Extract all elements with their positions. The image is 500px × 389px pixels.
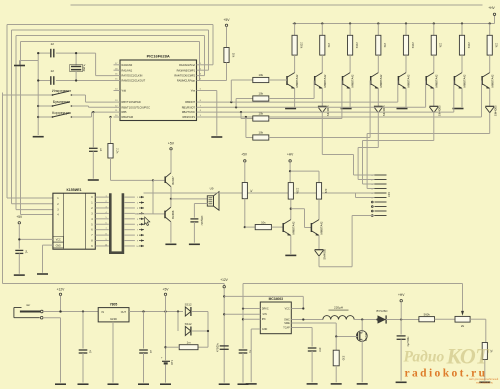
svg-text:560k: 560k — [424, 312, 431, 316]
svg-text:RA0/AN0: RA0/AN0 — [122, 63, 133, 67]
svg-text:RA3/AN3/CMP1: RA3/AN3/CMP1 — [177, 68, 196, 72]
svg-text:22k: 22k — [324, 189, 328, 194]
svg-text:PIC16F628A: PIC16F628A — [147, 54, 170, 59]
svg-text:GND: GND — [262, 328, 268, 331]
svg-text:SM4005: SM4005 — [382, 105, 386, 116]
svg-text:+5V: +5V — [16, 215, 23, 219]
svg-text:330: 330 — [341, 356, 345, 361]
svg-text:DRVC: DRVC — [262, 308, 269, 311]
svg-text:10k: 10k — [231, 53, 235, 58]
svg-text:MMBTA42: MMBTA42 — [291, 221, 295, 234]
svg-text:GND: GND — [56, 245, 61, 247]
svg-text:www.radiokot.ru: www.radiokot.ru — [476, 382, 494, 385]
svg-text:RA1/AN1: RA1/AN1 — [122, 68, 133, 72]
svg-text:VCC: VCC — [56, 240, 61, 242]
svg-text:10k: 10k — [259, 131, 264, 135]
svg-text:22: 22 — [51, 69, 55, 73]
svg-text:+12V: +12V — [57, 288, 66, 292]
svg-text:+5V: +5V — [223, 18, 230, 22]
svg-text:220k: 220k — [296, 188, 300, 195]
svg-text:GND: GND — [110, 317, 118, 321]
svg-text:220k: 220k — [467, 42, 471, 49]
svg-text:10k: 10k — [259, 92, 264, 96]
svg-text:SS12: SS12 — [185, 322, 192, 326]
svg-text:IPK: IPK — [262, 318, 266, 321]
svg-text:MMBTA42: MMBTA42 — [320, 221, 324, 234]
svg-text:SWE: SWE — [284, 322, 290, 325]
svg-text:4МГц: 4МГц — [82, 64, 86, 71]
svg-text:SS12: SS12 — [185, 302, 192, 306]
svg-text:XP2: XP2 — [387, 191, 391, 196]
svg-text:Бумление: Бумление — [53, 100, 71, 104]
svg-text:сайт для радиолюбителей: сайт для радиолюбителей — [469, 378, 499, 381]
svg-text:Коррекция: Коррекция — [52, 111, 71, 115]
svg-text:470: 470 — [318, 347, 322, 352]
svg-text:RB3/CCP1: RB3/CCP1 — [183, 115, 196, 119]
svg-text:БТ1: БТ1 — [170, 359, 174, 364]
svg-text:2k: 2k — [461, 324, 465, 328]
svg-text:BYV26C: BYV26C — [376, 309, 387, 313]
svg-text:4µ7/400v: 4µ7/400v — [407, 336, 410, 347]
svg-text:10k: 10k — [259, 73, 264, 77]
svg-text:RA6/OSC2/CLKOUT: RA6/OSC2/CLKOUT — [122, 79, 146, 83]
svg-text:220k: 220k — [411, 42, 415, 49]
svg-text:RA7/OSC1/CLKIN: RA7/OSC1/CLKIN — [122, 74, 143, 78]
svg-text:470/25v: 470/25v — [216, 342, 219, 352]
svg-text:22: 22 — [51, 42, 55, 46]
svg-text:BC847: BC847 — [171, 176, 175, 185]
svg-text:+HV: +HV — [398, 293, 405, 297]
svg-text:Vss: Vss — [191, 89, 196, 93]
svg-text:220k: 220k — [355, 42, 359, 49]
svg-text:КОТ: КОТ — [446, 344, 491, 369]
svg-text:OUT: OUT — [121, 311, 127, 314]
svg-text:10k: 10k — [259, 112, 264, 116]
svg-text:7805: 7805 — [110, 303, 118, 307]
svg-text:BC856: BC856 — [171, 210, 175, 219]
svg-text:Радио: Радио — [404, 349, 445, 366]
svg-text:MMBTA42: MMBTA42 — [490, 74, 494, 87]
svg-text:пит: пит — [26, 303, 31, 307]
svg-text:RB5: RB5 — [122, 110, 128, 114]
svg-text:+5V: +5V — [163, 288, 170, 292]
svg-text:RB0/INT: RB0/INT — [185, 100, 195, 104]
svg-text:-VIN: -VIN — [262, 313, 267, 316]
svg-text:RB1/RX/DT: RB1/RX/DT — [182, 105, 196, 109]
svg-text:U9: U9 — [210, 187, 214, 191]
svg-text:MC34063: MC34063 — [269, 297, 283, 301]
svg-text:RA2/AN2/Vref: RA2/AN2/Vref — [179, 63, 195, 67]
svg-text:RA5/MCLR/Vpp: RA5/MCLR/Vpp — [177, 79, 196, 83]
svg-text:100µ16v: 100µ16v — [200, 215, 204, 226]
svg-text:2,2к: 2,2к — [115, 148, 119, 154]
svg-text:220µH: 220µH — [334, 306, 343, 310]
svg-text:RA4/T0CKI/CMP2: RA4/T0CKI/CMP2 — [174, 74, 195, 78]
svg-text:SM4005: SM4005 — [323, 248, 327, 259]
svg-text:К155ИЕ1: К155ИЕ1 — [67, 188, 82, 192]
svg-text:Vdd: Vdd — [122, 89, 127, 93]
svg-text:MMBTA42: MMBTA42 — [351, 74, 355, 87]
svg-text:+12V: +12V — [220, 278, 228, 282]
svg-text:RB7/T1OSI/PGD: RB7/T1OSI/PGD — [122, 100, 141, 104]
svg-text:RB4/PGM: RB4/PGM — [122, 115, 133, 119]
svg-text:MMBTA42: MMBTA42 — [379, 74, 383, 87]
svg-text:IN: IN — [102, 311, 105, 314]
svg-text:VCC: VCC — [285, 308, 290, 311]
svg-text:SM4005: SM4005 — [437, 105, 441, 116]
svg-text:22k: 22k — [495, 43, 499, 48]
svg-text:+HV: +HV — [287, 153, 294, 157]
svg-text:SM4005: SM4005 — [326, 105, 330, 116]
svg-text:+HV: +HV — [488, 6, 495, 10]
svg-text:SM4005: SM4005 — [493, 105, 497, 116]
svg-text:22k: 22k — [383, 43, 387, 48]
svg-text:MMBTA42: MMBTA42 — [323, 74, 327, 87]
svg-text:10к: 10к — [261, 220, 266, 224]
svg-text:22k: 22k — [327, 43, 331, 48]
svg-text:1m: 1m — [187, 341, 192, 345]
svg-text:MMBTA42: MMBTA42 — [295, 74, 299, 87]
svg-text:RB6/T1OSO/T1CKI/PGC: RB6/T1OSO/T1CKI/PGC — [122, 105, 151, 109]
svg-text:IRF740: IRF740 — [365, 332, 368, 341]
svg-text:TCAP: TCAP — [283, 327, 290, 330]
svg-text:MMBTA42: MMBTA42 — [407, 74, 411, 87]
svg-text:RB2/TX/CK: RB2/TX/CK — [182, 110, 195, 114]
svg-text:MMBTA42: MMBTA42 — [463, 74, 467, 87]
svg-text:+5V: +5V — [241, 153, 248, 157]
svg-text:22k: 22k — [439, 43, 443, 48]
svg-text:220k: 220k — [299, 42, 303, 49]
svg-text:+5V: +5V — [168, 141, 175, 145]
svg-text:MMBTA42: MMBTA42 — [434, 74, 438, 87]
svg-text:SWC: SWC — [284, 319, 290, 322]
